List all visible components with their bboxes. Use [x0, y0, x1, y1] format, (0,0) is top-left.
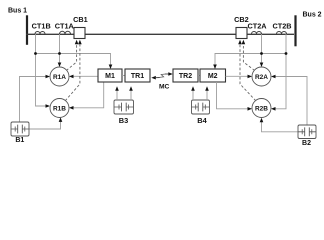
wire: B1 to R1B bottom	[29, 122, 61, 130]
microwave channel MC	[151, 76, 156, 80]
svg-text:B2: B2	[302, 140, 311, 147]
node: junction CT2B tap	[285, 52, 288, 55]
wire: CT junction line right to M2 top	[215, 54, 286, 65]
bus 1	[26, 15, 28, 45]
svg-text:CT2B: CT2B	[272, 21, 291, 30]
relay R2B	[252, 99, 271, 118]
wire: CT junction line left to M1 top	[36, 54, 111, 65]
wire: M2 bottom to R2B left	[217, 82, 248, 109]
breaker CB1	[74, 28, 85, 39]
wire B3 to M1	[116, 90, 118, 100]
CT2A	[252, 32, 262, 35]
wire B4 to TR2	[192, 90, 194, 100]
svg-text:Bus 2: Bus 2	[303, 12, 322, 19]
svg-text:R2B: R2B	[255, 106, 268, 113]
wire: B2 to R2B bottom	[262, 122, 299, 132]
transmission line	[26, 33, 294, 35]
modem M2	[200, 69, 226, 82]
svg-text:Bus 1: Bus 1	[8, 7, 27, 14]
svg-text:TR1: TR1	[131, 73, 144, 80]
svg-text:R1A: R1A	[53, 74, 66, 81]
svg-text:TR2: TR2	[179, 73, 192, 80]
breaker CB2	[236, 28, 247, 39]
svg-text:R2A: R2A	[255, 74, 268, 81]
svg-text:CT1B: CT1B	[32, 21, 51, 30]
bus 2	[294, 15, 296, 46]
svg-text:M1: M1	[105, 73, 115, 80]
transceiver TR1	[125, 69, 150, 82]
trip wire R2A to CB2 (dashed)	[243, 44, 254, 70]
wire: B1 up to R1A left	[20, 77, 46, 123]
node: junction CT2A tap	[260, 52, 263, 55]
CT2B	[277, 32, 287, 35]
svg-text:B3: B3	[119, 116, 128, 125]
CT1A	[60, 31, 71, 34]
wire: M1 bottom to R1B right	[73, 82, 104, 108]
trip wire R1B to CB1 (dashed)	[65, 44, 80, 101]
svg-text:B4: B4	[197, 116, 207, 125]
wire: M1 to R1A right	[73, 75, 98, 77]
relay R1B	[50, 99, 69, 118]
svg-text:MC: MC	[159, 84, 170, 91]
wire: CT2B tap down to R2B	[276, 34, 287, 109]
trip wire R2B to CB2 (dashed)	[240, 44, 256, 101]
battery B1	[11, 122, 29, 136]
svg-text:B1: B1	[15, 137, 24, 144]
svg-text:M2: M2	[208, 73, 218, 80]
svg-text:CT2A: CT2A	[247, 21, 267, 30]
wire B3 to TR1	[130, 90, 132, 100]
CT1B	[35, 32, 45, 35]
modem M1	[98, 69, 122, 82]
wire: CT2A tap down to R2A top	[261, 34, 263, 63]
relay R1A	[50, 67, 69, 86]
wire: CT1A tap down to R1A top	[59, 34, 61, 63]
battery B4	[192, 100, 210, 114]
svg-text:CB1: CB1	[73, 15, 88, 24]
svg-text:R1B: R1B	[53, 106, 66, 113]
svg-text:CB2: CB2	[234, 15, 249, 24]
battery B3	[114, 100, 134, 114]
transceiver TR2	[173, 69, 198, 82]
wire TR2-M2	[198, 75, 200, 77]
wire B4 to M2	[206, 90, 208, 100]
svg-text:CT1A: CT1A	[55, 21, 75, 30]
node: junction CT1B tap	[34, 52, 37, 55]
trip wire R1A to CB1 (dashed)	[66, 44, 76, 70]
node: junction CT1A tap	[58, 52, 61, 55]
wire: CT1B tap down to R1B	[36, 34, 47, 106]
relay R2A	[252, 67, 271, 86]
wire: B2 up to R2A right	[276, 77, 308, 126]
battery B2	[298, 125, 316, 139]
wire: M2 to R2A left	[226, 75, 248, 77]
wire M1-TR1	[122, 75, 125, 77]
